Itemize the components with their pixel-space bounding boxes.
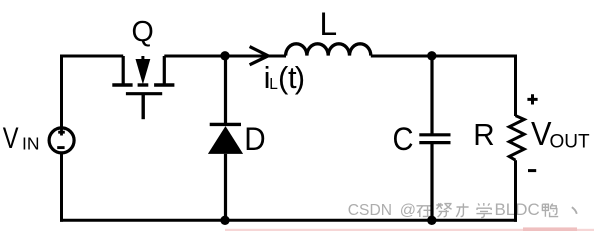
transistor Q left contact bar bbox=[112, 83, 132, 86]
watermark hanzi nu bbox=[436, 203, 451, 217]
node junction dot capacitor bottom bbox=[427, 216, 436, 225]
label C bbox=[393, 121, 414, 157]
label minus output bbox=[528, 169, 536, 172]
wire right vertical lower bbox=[514, 160, 517, 222]
watermark hanzi xue bbox=[476, 203, 492, 218]
svg-text:BLDC: BLDC bbox=[495, 201, 540, 219]
svg-text:V: V bbox=[3, 122, 19, 155]
svg-text:@: @ bbox=[400, 202, 416, 219]
svg-text:IN: IN bbox=[22, 134, 40, 154]
transistor Q middle contact bar bbox=[138, 83, 149, 86]
svg-text:R: R bbox=[473, 117, 494, 152]
svg-text:L: L bbox=[320, 6, 338, 42]
watermark hanzi ya bbox=[542, 204, 558, 217]
resistor R zigzag bbox=[509, 116, 524, 161]
transistor Q label bbox=[131, 16, 153, 48]
transistor Q arrow head bbox=[136, 59, 151, 85]
node junction dot capacitor top bbox=[427, 51, 436, 60]
wire right vertical upper bbox=[514, 55, 517, 117]
current arrow head bbox=[250, 47, 269, 65]
label iL(t) bbox=[264, 60, 306, 95]
diode D branch wire upper bbox=[224, 56, 227, 124]
svg-text:L: L bbox=[269, 76, 278, 93]
minus sign inside VIN bbox=[57, 146, 64, 149]
watermark dun mark bbox=[572, 207, 577, 214]
inductor L bbox=[286, 44, 371, 56]
capacitor C branch wire upper bbox=[430, 56, 433, 135]
transistor Q right contact bar bbox=[154, 83, 174, 86]
plus sign inside VIN bbox=[58, 129, 65, 136]
diode D branch wire lower bbox=[224, 154, 227, 220]
svg-text:V: V bbox=[531, 115, 552, 152]
node junction dot diode bottom bbox=[220, 216, 229, 225]
svg-text:C: C bbox=[393, 121, 414, 157]
wire top middle segment bbox=[164, 55, 286, 58]
svg-text:OUT: OUT bbox=[550, 132, 591, 153]
watermark pink strip bbox=[225, 227, 594, 231]
transistor Q source lead bbox=[163, 56, 166, 84]
watermark hanzi zai bbox=[417, 206, 433, 217]
watermark hanzi li bbox=[456, 203, 468, 216]
label plus output bbox=[527, 94, 537, 104]
diode D triangle bbox=[208, 126, 243, 154]
label D bbox=[244, 120, 265, 157]
svg-text:D: D bbox=[244, 120, 265, 157]
wire left vertical upper bbox=[60, 55, 63, 130]
svg-text:): ) bbox=[295, 60, 305, 95]
watermark BLDC latin part bbox=[495, 201, 540, 219]
diode D cathode bar bbox=[210, 123, 241, 126]
wire top right segment bbox=[371, 55, 517, 58]
capacitor C branch wire lower bbox=[430, 143, 433, 220]
transistor Q gate lead bbox=[141, 94, 144, 120]
node junction dot diode top bbox=[220, 51, 229, 60]
svg-text:CSDN: CSDN bbox=[348, 202, 392, 219]
capacitor C top plate bbox=[419, 133, 450, 136]
transistor Q arrow shaft bbox=[141, 56, 144, 62]
svg-text:Q: Q bbox=[131, 16, 153, 48]
voltage source VIN bbox=[49, 128, 74, 153]
wire bottom bbox=[60, 219, 517, 222]
label L bbox=[320, 6, 338, 42]
wire left vertical lower bbox=[60, 153, 63, 222]
watermark CSDN latin part bbox=[348, 202, 416, 219]
label VIN bbox=[3, 122, 40, 155]
transistor Q drain lead bbox=[122, 56, 125, 84]
label R bbox=[473, 117, 494, 152]
wire top-left segment VIN to Q bbox=[60, 55, 123, 58]
capacitor C bottom plate bbox=[419, 141, 450, 144]
transistor Q gate line bbox=[126, 92, 162, 95]
label VOUT bbox=[531, 115, 590, 153]
